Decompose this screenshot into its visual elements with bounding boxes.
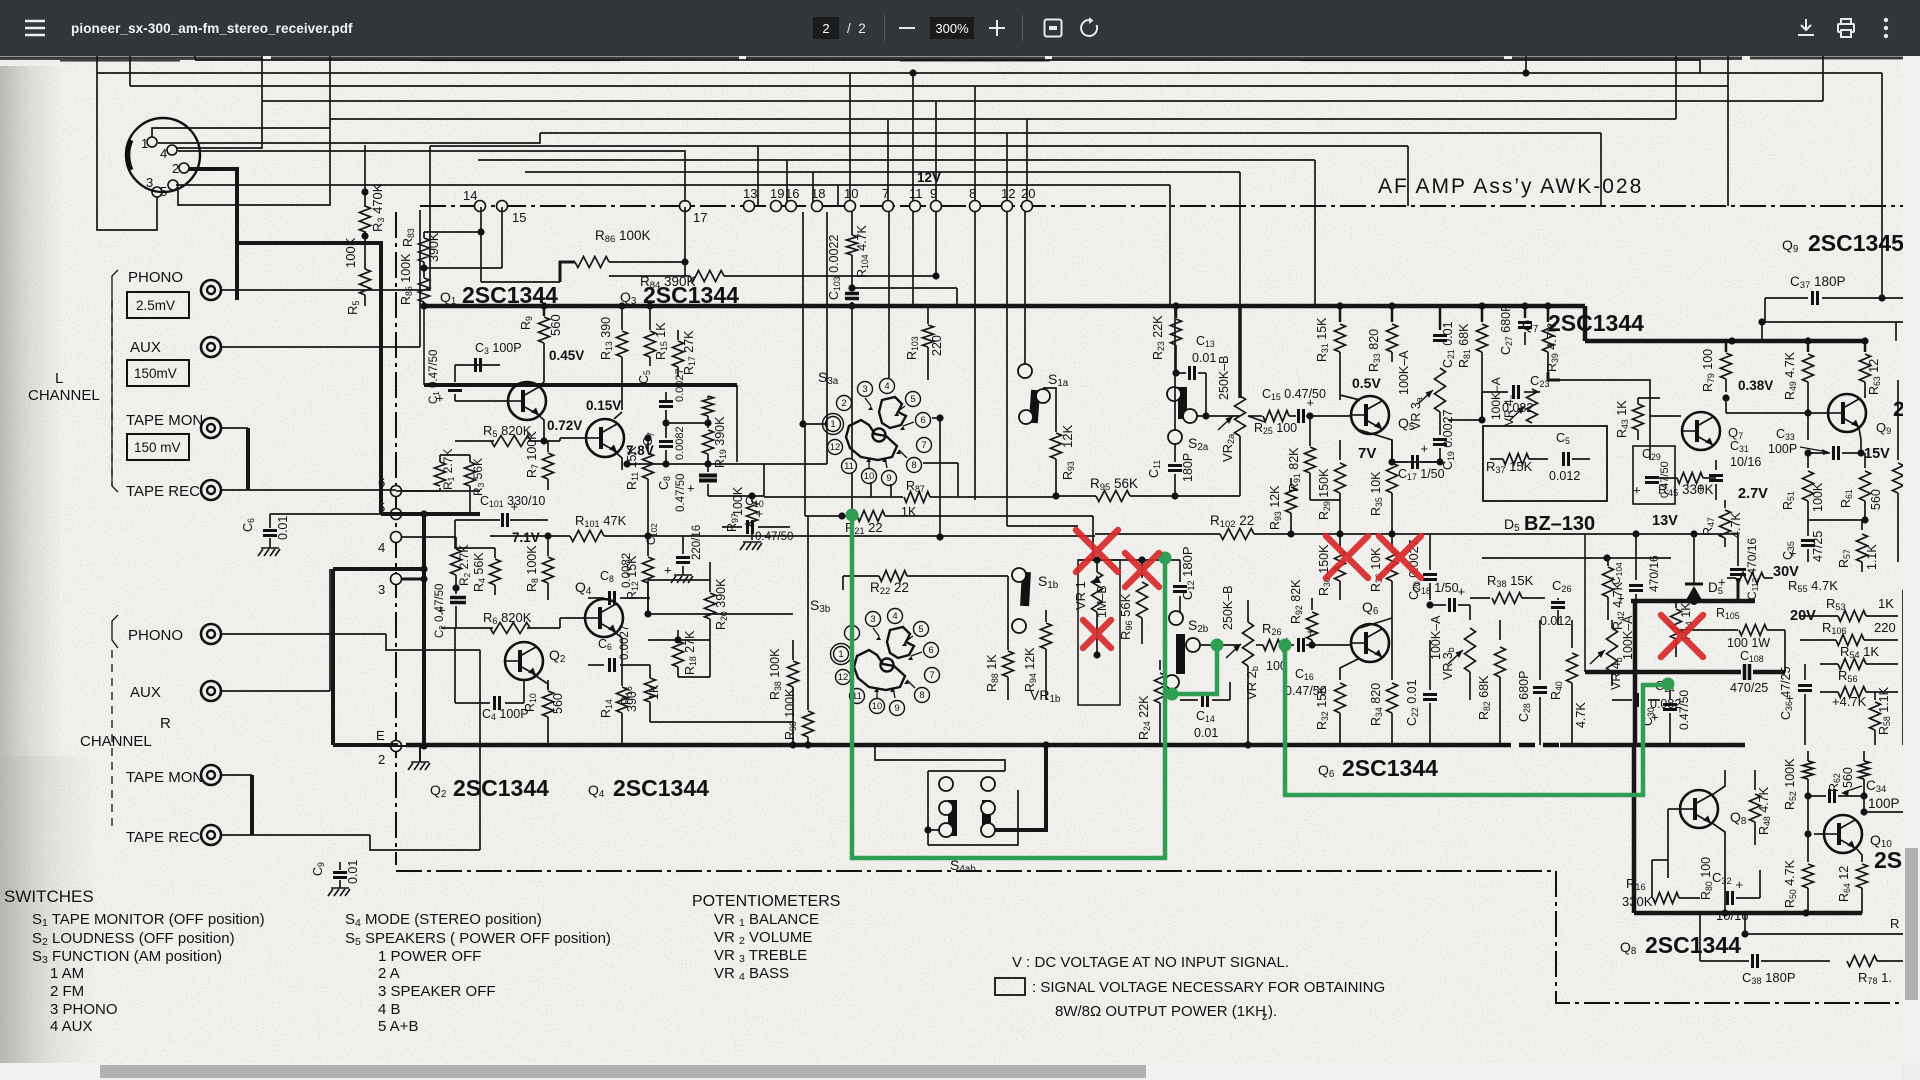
wire board boundary top [396, 206, 1910, 1003]
capacitor C103 0.0022 [845, 292, 859, 296]
resistor R44 1K crossed [1675, 601, 1677, 608]
wire 13V rail [1490, 533, 1722, 535]
svg-text:PHONO: PHONO [128, 269, 183, 286]
svg-text:560: 560 [1869, 489, 1883, 510]
ground at E pin [419, 746, 421, 762]
wire thick drop x1635 [1633, 601, 1638, 745]
transistor Q2 [505, 642, 543, 680]
wires rotary feeds [802, 212, 804, 424]
svg-text:3: 3 [378, 582, 385, 597]
svg-text:7: 7 [929, 670, 934, 681]
svg-text:7V: 7V [1358, 445, 1376, 462]
wire Q10 collector [1860, 808, 1867, 815]
svg-text:470/25: 470/25 [1730, 681, 1768, 695]
wire top bus rows [195, 59, 1700, 61]
transistor Q1 [508, 382, 546, 420]
pin 9 [931, 201, 942, 212]
resistor R42 4.7K [1607, 558, 1609, 566]
svg-text:L: L [55, 370, 63, 387]
wire Q3 collector [621, 366, 623, 410]
svg-text:S3 FUNCTION (AM position): S3 FUNCTION (AM position) [32, 948, 222, 966]
svg-text:560: 560 [548, 314, 563, 336]
svg-text:R20 390K: R20 390K [714, 578, 729, 630]
svg-text:C18 1/50: C18 1/50 [1412, 581, 1459, 596]
resistor R62 560 [1863, 751, 1865, 761]
wire pin4 [402, 536, 456, 538]
green src dot wire [1666, 680, 1673, 687]
vertical scrollbar [1903, 56, 1920, 1063]
svg-text:4 AUX: 4 AUX [50, 1018, 93, 1035]
svg-text:C4 100P: C4 100P [482, 707, 529, 722]
pin 11 [910, 201, 921, 212]
svg-text:R38 15K: R38 15K [1487, 573, 1534, 589]
svg-text:100K–A: 100K–A [1397, 350, 1411, 395]
svg-text:C3 100P: C3 100P [475, 341, 522, 356]
resistor R2b 2.7K [451, 549, 462, 575]
wire Q1 base [455, 400, 508, 402]
terminal PHONO R [201, 624, 221, 644]
svg-text:0.01: 0.01 [1194, 726, 1218, 740]
svg-text:5: 5 [160, 184, 167, 199]
pin 7 [883, 201, 894, 212]
resistor R18 27K [677, 630, 679, 640]
svg-text:2SC1345: 2SC1345 [1808, 230, 1903, 256]
svg-text:10: 10 [864, 471, 875, 482]
svg-text:0.01: 0.01 [1192, 351, 1216, 365]
wire thick mid rail [1585, 670, 1741, 675]
svg-text:R31 15K: R31 15K [1315, 317, 1330, 362]
svg-text:3: 3 [862, 384, 867, 395]
resistor R30 150K [1339, 534, 1341, 548]
svg-text:3 PHONO: 3 PHONO [50, 1001, 118, 1018]
resistor R12 15K [647, 536, 649, 556]
svg-text:R32 15K: R32 15K [1315, 685, 1330, 730]
svg-text:TAPE MON: TAPE MON [126, 412, 203, 429]
capacitor C9 0.01 [339, 862, 341, 870]
resistor R36 10K [1391, 534, 1393, 548]
svg-text:100K–A: 100K–A [1429, 615, 1443, 660]
svg-text:7.1V: 7.1V [512, 530, 540, 545]
wire thick DIN pin2 to board [237, 169, 381, 514]
svg-text:+: + [756, 506, 764, 521]
svg-text:R3 470K: R3 470K [370, 183, 386, 232]
svg-text:9: 9 [930, 186, 937, 201]
transistor Q8 [1680, 790, 1718, 828]
svg-text:R24 22K: R24 22K [1137, 695, 1152, 740]
svg-text:R93 12K: R93 12K [1268, 485, 1283, 530]
pin 17 [680, 201, 691, 212]
wire main supply bus [424, 304, 1585, 309]
transistor Q10 [1824, 815, 1862, 853]
svg-text:2.7V: 2.7V [1738, 486, 1768, 502]
svg-text:6: 6 [928, 645, 933, 656]
resistor R39 4.7K [1547, 306, 1550, 322]
resistor R5 100K [364, 236, 366, 269]
capacitor C16 0.47/50 [1297, 638, 1300, 652]
wire right edge verticals [1895, 322, 1897, 341]
resistor R97 100K [751, 496, 753, 502]
hamburger menu icon [24, 18, 46, 38]
svg-text:2SC1344: 2SC1344 [453, 775, 549, 801]
transistor Q7 [1682, 412, 1720, 450]
svg-text:100K: 100K [731, 486, 745, 516]
svg-text:+: + [664, 563, 672, 578]
wire second rail [424, 383, 737, 387]
capacitor C29 boxed [1633, 446, 1675, 504]
capacitor C24 0.082 [1636, 693, 1639, 707]
svg-text:1 AM: 1 AM [50, 965, 84, 982]
svg-text:R38 100K: R38 100K [768, 648, 783, 700]
wire Q1 emitter [537, 414, 544, 441]
svg-text:R29 150K: R29 150K [1317, 468, 1332, 520]
svg-text:E: E [376, 728, 385, 743]
svg-text:390K: 390K [427, 232, 441, 262]
box 2.5mV [127, 292, 189, 318]
svg-text:12: 12 [830, 442, 841, 453]
svg-text:VR 3 TREBLE: VR 3 TREBLE [714, 947, 807, 965]
svg-text:AF AMP Ass’y AWK-028: AF AMP Ass’y AWK-028 [1378, 175, 1643, 198]
wire pin14 riser [480, 207, 482, 282]
svg-text:2SC1344: 2SC1344 [1645, 932, 1741, 958]
resistor R31 15K [1339, 306, 1342, 322]
svg-text:0.45V: 0.45V [549, 348, 584, 363]
pins 14 15 on boundary [475, 201, 486, 212]
svg-text:R13 390: R13 390 [599, 317, 614, 360]
svg-text:C12 180P: C12 180P [1180, 547, 1196, 601]
download icon [1796, 18, 1816, 38]
svg-text:2: 2 [172, 161, 179, 176]
svg-text:15: 15 [512, 210, 526, 225]
svg-text:R80 100: R80 100 [1699, 857, 1714, 900]
svg-text:S1 TAPE MONITOR (OFF positio: S1 TAPE MONITOR (OFF position) [32, 911, 265, 929]
svg-text:).: ). [1268, 1003, 1277, 1020]
svg-text:R48 4.7K: R48 4.7K [1757, 786, 1772, 835]
svg-text:SWITCHES: SWITCHES [4, 887, 94, 906]
svg-text:R36 10K: R36 10K [1369, 547, 1384, 592]
wire pin15 riser [501, 207, 503, 268]
capacitor C38 180P [1751, 954, 1754, 968]
svg-text:VR 4 BASS: VR 4 BASS [714, 965, 789, 983]
svg-text:R22 22: R22 22 [870, 580, 909, 597]
svg-text:R23 22K: R23 22K [1151, 315, 1166, 360]
resistor R34 820 [1391, 600, 1393, 680]
resistor R57 1.1K [1861, 520, 1863, 530]
rotate icon [1078, 17, 1100, 39]
svg-text:R33 820: R33 820 [1367, 329, 1382, 372]
box 150mV [127, 360, 189, 386]
svg-text:4.7K: 4.7K [1574, 702, 1588, 728]
capacitor C34 100P [1808, 795, 1826, 797]
svg-text:C38 180P: C38 180P [1742, 970, 1796, 986]
resistor R38b 100K [792, 640, 794, 660]
resistor R43 1K [1637, 398, 1639, 404]
svg-text:R43 1K: R43 1K [1615, 400, 1630, 438]
svg-text:250K–B: 250K–B [1221, 586, 1235, 630]
svg-text:1: 1 [830, 419, 835, 430]
svg-text:0.0027: 0.0027 [619, 625, 631, 660]
transistor Q5 [1351, 396, 1389, 434]
wire pin8 drop [974, 212, 976, 500]
svg-text:0.72V: 0.72V [547, 418, 582, 433]
capacitor C6 0.01 [269, 514, 271, 528]
transistor Q6 [1351, 624, 1389, 662]
svg-text:V : DC VOLTAGE AT NO INP: V : DC VOLTAGE AT NO INPUT SIGNAL. [1012, 954, 1289, 971]
svg-text:100 1W: 100 1W [1727, 636, 1770, 650]
svg-text:0.15V: 0.15V [586, 398, 621, 413]
wire left risers from terminals [396, 146, 430, 290]
svg-text:+: + [438, 603, 446, 618]
wire thick 13V bus [1631, 599, 1755, 604]
svg-text:C36 47/25: C36 47/25 [1779, 666, 1794, 720]
svg-text:C1 0.47/50: C1 0.47/50 [428, 350, 441, 404]
capacitor C14 0.01 [1201, 693, 1204, 707]
svg-text:13: 13 [743, 186, 757, 201]
svg-text:TAPE MON: TAPE MON [126, 769, 203, 786]
switch S2b [1169, 611, 1183, 625]
capacitor C12 180P [1179, 560, 1181, 582]
resistor R82 68K [1499, 620, 1501, 640]
svg-text:C17 1/50: C17 1/50 [1398, 467, 1445, 482]
svg-text:R79 100: R79 100 [1701, 349, 1716, 392]
svg-text:TAPE REC: TAPE REC [126, 483, 200, 500]
wire Q3 emitter [613, 450, 622, 470]
potentiometer VR4a 100K-A [1527, 389, 1538, 423]
svg-text:2 A: 2 A [378, 965, 400, 982]
box 150mV 2 [127, 434, 189, 460]
svg-text:220: 220 [1874, 620, 1896, 635]
svg-text:R34 820: R34 820 [1369, 683, 1384, 726]
transistor Q9 [1828, 394, 1866, 432]
pin 8 [970, 201, 981, 212]
wire bottom right net [1699, 913, 1701, 961]
svg-text:C21 0.01: C21 0.01 [1441, 321, 1456, 368]
wire Q7 surround [1560, 380, 1681, 416]
wire Q9 emitter [1859, 428, 1861, 453]
pin 20 [1022, 201, 1033, 212]
resistor R78 [1847, 956, 1877, 967]
svg-text:R63 12: R63 12 [1867, 359, 1882, 395]
svg-text:3 SPEAKER OFF: 3 SPEAKER OFF [378, 983, 496, 1000]
svg-text:0.47/50: 0.47/50 [755, 531, 793, 543]
svg-text:150mV: 150mV [134, 366, 177, 381]
svg-text:0.01: 0.01 [276, 516, 290, 540]
resistor R83 390K [423, 232, 425, 238]
svg-text:13V: 13V [1652, 513, 1678, 529]
wire S4 thick [995, 745, 1046, 830]
svg-text:8W/8Ω OUTPUT POWER (1KH: 8W/8Ω OUTPUT POWER (1KH [1055, 1003, 1266, 1020]
svg-text:2S: 2S [1874, 847, 1902, 873]
svg-text:R55 4.7K: R55 4.7K [1788, 578, 1838, 594]
wire C8 to R97 [708, 495, 764, 497]
svg-text:R85 100K: R85 100K [399, 253, 414, 305]
resistor R32 15K [1340, 658, 1360, 680]
svg-text:330K: 330K [1622, 894, 1653, 909]
wire thick frame Q8 [1632, 745, 1637, 913]
terminal PHONO L [201, 280, 221, 300]
wire Q1 collector [543, 352, 545, 382]
wire thick right bus [1732, 339, 1865, 344]
capacitor C28 680P [1539, 620, 1541, 680]
svg-text:20: 20 [1021, 186, 1035, 201]
svg-text:5: 5 [910, 394, 915, 405]
wire R42 node [1482, 557, 1671, 559]
capacitor C112 470/16 [1722, 533, 1738, 535]
svg-text:R95 56K: R95 56K [1090, 476, 1138, 493]
svg-text:250K–B: 250K–B [1217, 356, 1231, 400]
svg-text:PHONO: PHONO [128, 627, 183, 644]
resistor R4b 56K [494, 548, 496, 558]
wire green trace 3 [1285, 645, 1668, 795]
terminal TAPE MON L [201, 418, 221, 438]
input group bracket R [112, 615, 118, 648]
svg-text:0.38V: 0.38V [1738, 378, 1773, 393]
resistor R10 560 [547, 680, 549, 690]
X mark R36 [1379, 536, 1421, 578]
svg-text:R15 1K: R15 1K [654, 322, 669, 360]
capacitor C36 47/25 [1804, 664, 1806, 680]
svg-text:VR 2b: VR 2b [1244, 666, 1260, 700]
svg-text:10: 10 [844, 186, 858, 201]
wire pin3 thick [402, 578, 424, 581]
potentiometer VR1 1M-B [1078, 560, 1120, 705]
svg-text:7: 7 [882, 186, 889, 201]
resistor R93b 12K [1290, 478, 1292, 486]
X mark VR1 top [1076, 530, 1118, 572]
svg-text:5: 5 [918, 624, 923, 635]
svg-text:8: 8 [969, 186, 976, 201]
svg-text:R50 4.7K: R50 4.7K [1783, 859, 1798, 908]
resistor R11 15K [647, 438, 649, 452]
resistor R64 12 [1856, 848, 1862, 862]
toolbar [0, 0, 1920, 56]
fit to width icon [1043, 18, 1063, 38]
svg-text:3: 3 [870, 614, 875, 625]
svg-text:0.01: 0.01 [346, 860, 360, 884]
capacitor C22 0.01 [1429, 640, 1431, 690]
svg-text:2SC1344: 2SC1344 [613, 775, 709, 801]
svg-text:+: + [1697, 481, 1705, 496]
svg-text:180P: 180P [1181, 453, 1195, 482]
print icon [1836, 18, 1856, 38]
svg-text:R49 4.7K: R49 4.7K [1783, 351, 1798, 400]
svg-text:R11 15K: R11 15K [625, 445, 640, 490]
svg-text:R98 100K: R98 100K [783, 688, 798, 740]
resistor R61 560 [1864, 453, 1866, 468]
svg-text:R6 820K: R6 820K [483, 610, 532, 626]
svg-text:3: 3 [146, 175, 153, 190]
svg-text:+: + [511, 499, 519, 514]
svg-text:+4.7K: +4.7K [1832, 694, 1867, 709]
resistor R3b 56K [465, 462, 476, 486]
scan top edge dark speckle [0, 57, 1903, 62]
wire pin drops mid [912, 212, 914, 306]
svg-text:0.012: 0.012 [1540, 614, 1571, 628]
svg-text:470/16: 470/16 [1647, 555, 1661, 592]
svg-text:R58 1.1K: R58 1.1K [1877, 686, 1892, 735]
pin E 2 [391, 741, 402, 752]
svg-text:+: + [1633, 483, 1641, 498]
svg-text:12: 12 [1001, 186, 1015, 201]
svg-text:560: 560 [1841, 767, 1855, 788]
wire mid feeder verticals [757, 146, 759, 206]
wire Q9 feed [1762, 321, 1905, 323]
wire tape bus R [250, 775, 254, 835]
svg-text:14: 14 [463, 188, 477, 203]
svg-text:R4 56K: R4 56K [472, 552, 487, 592]
terminal TAPE REC R [201, 825, 221, 845]
resistor R5a 820K [491, 436, 531, 447]
page number box [813, 17, 839, 39]
svg-text:4: 4 [160, 146, 167, 161]
pin 13 [744, 201, 755, 212]
svg-text:+: + [1718, 575, 1726, 590]
resistor R63 12 [1864, 341, 1867, 352]
svg-text:2SC1344: 2SC1344 [1548, 310, 1644, 336]
svg-text:R37 15K: R37 15K [1486, 459, 1533, 475]
svg-text:1K: 1K [901, 505, 917, 519]
wire VR1 top [1078, 559, 1180, 561]
connector DIN [126, 118, 200, 192]
terminal TAPE REC L [201, 480, 221, 500]
svg-text:100K–A: 100K–A [1489, 377, 1503, 420]
wire VR1 feed [1092, 516, 1094, 560]
resistor R93 12K [1055, 402, 1057, 432]
svg-text:R92 82K: R92 82K [1289, 579, 1304, 624]
svg-text:4: 4 [378, 540, 385, 555]
svg-text:16: 16 [785, 186, 799, 201]
svg-text:R101 47K: R101 47K [575, 513, 627, 529]
resistor R49 4.7K [1807, 341, 1810, 352]
svg-text:+: + [1307, 395, 1315, 410]
terminal AUX L [201, 337, 221, 357]
svg-text:VR 1: VR 1 [1073, 581, 1088, 610]
svg-text:CHANNEL: CHANNEL [28, 387, 100, 404]
wire pin20 drop to S1a [1024, 212, 1026, 364]
pins 6 5 4 3 on left boundary [391, 486, 402, 497]
svg-text:9: 9 [894, 703, 899, 714]
terminal AUX R [201, 681, 221, 701]
capacitor C20 0.0027 [1429, 534, 1431, 570]
svg-text:18: 18 [811, 186, 825, 201]
wire Q5 collector emitter [1340, 395, 1360, 400]
kebab menu icon [1879, 17, 1893, 39]
resistor R13 390 [621, 306, 623, 330]
potentiometer VR4b 100K-A [1607, 628, 1618, 672]
resistor R104 4.7K [851, 212, 853, 235]
svg-text:0.0082: 0.0082 [621, 553, 633, 588]
filename [71, 21, 353, 36]
wire green trace 1 [852, 515, 1165, 858]
diode D5 [1693, 534, 1695, 583]
resistor R81 68K [1481, 306, 1484, 322]
svg-text:TAPE REC: TAPE REC [126, 829, 200, 846]
horizontal scrollbar [0, 1063, 1903, 1080]
wire thick from DIN pin2 [189, 169, 237, 300]
resistor R47 4.7K [1724, 500, 1726, 508]
svg-text:CHANNEL: CHANNEL [80, 733, 152, 750]
pin 18 [812, 201, 823, 212]
svg-text:BZ–130: BZ–130 [1524, 513, 1595, 535]
wire Q8 conn [1667, 809, 1669, 878]
resistor R17 27K [677, 330, 679, 340]
svg-text:POTENTIOMETERS: POTENTIOMETERS [692, 893, 840, 910]
svg-text:0.47/50: 0.47/50 [1677, 690, 1691, 730]
resistor R92 82K [1311, 598, 1313, 610]
svg-text:C37 180P: C37 180P [1790, 274, 1846, 291]
svg-text:2: 2 [841, 398, 846, 409]
svg-text:C28 680P: C28 680P [1517, 671, 1532, 722]
wire green trace 2 [1172, 645, 1217, 694]
